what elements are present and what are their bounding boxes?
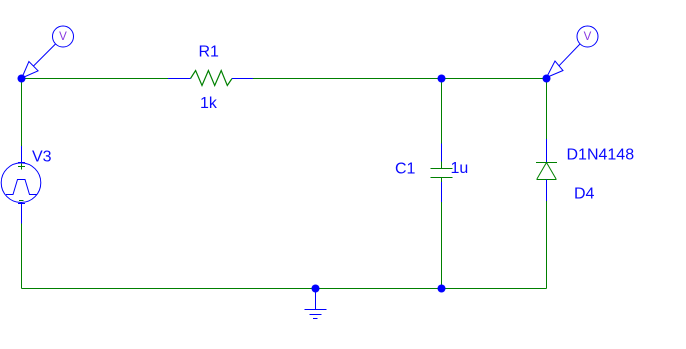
svg-text:V3: V3 <box>32 149 52 166</box>
svg-text:D1N4148: D1N4148 <box>567 147 635 164</box>
svg-text:C1: C1 <box>395 161 416 178</box>
svg-text:D4: D4 <box>574 186 595 203</box>
svg-text:R1: R1 <box>199 44 220 61</box>
svg-text:V: V <box>59 31 67 43</box>
svg-text:V: V <box>584 31 592 43</box>
svg-text:1k: 1k <box>200 95 218 112</box>
svg-text:1u: 1u <box>451 160 469 177</box>
